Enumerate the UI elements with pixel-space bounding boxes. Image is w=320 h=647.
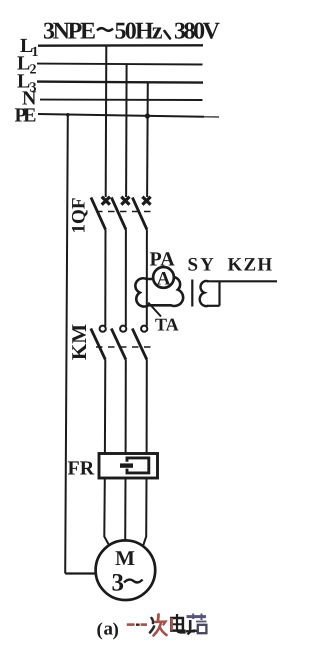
contactor KM linkage bbox=[96, 346, 151, 348]
SY winding bbox=[200, 281, 208, 306]
svg-text:): ) bbox=[113, 620, 119, 641]
label L1 bbox=[20, 35, 39, 60]
supply label 3NPE~50Hz 380V bbox=[43, 19, 221, 45]
svg-text:SY: SY bbox=[188, 255, 216, 276]
wire FR to motor 1 bbox=[104, 478, 109, 546]
svg-text:380V: 380V bbox=[174, 19, 221, 45]
label L3 bbox=[17, 71, 37, 96]
svg-text:KM: KM bbox=[67, 324, 91, 360]
contactor KM pole 1 bbox=[91, 326, 106, 453]
svg-text:TA: TA bbox=[155, 315, 179, 335]
bus PE bbox=[38, 114, 204, 117]
label L2 bbox=[17, 53, 37, 78]
SY core bar bbox=[191, 280, 193, 307]
node L3 drop crossing PE bbox=[145, 113, 150, 118]
wire FR to motor 3 bbox=[143, 478, 146, 546]
wire L3 drop bbox=[146, 82, 149, 197]
svg-text:1: 1 bbox=[32, 45, 39, 60]
SY loop bottom bbox=[207, 305, 220, 307]
wire FR to motor 2 bbox=[124, 478, 126, 542]
svg-text:50Hz: 50Hz bbox=[115, 19, 163, 45]
caption (a) bbox=[97, 619, 119, 641]
caption glyph 电 bbox=[170, 614, 184, 633]
caption glyph 路 bbox=[186, 614, 207, 635]
wire PE to motor bbox=[65, 572, 96, 574]
node PE junction bbox=[66, 113, 70, 117]
FR heater element bbox=[120, 458, 149, 473]
svg-text:A: A bbox=[157, 268, 171, 289]
breaker 1QF pole 1 bbox=[91, 197, 110, 326]
SY loop right side bbox=[218, 281, 220, 306]
svg-text:3: 3 bbox=[112, 570, 125, 597]
thermal relay FR box bbox=[99, 454, 158, 479]
current transformer TA ring bbox=[135, 277, 183, 307]
svg-text:2: 2 bbox=[30, 63, 37, 78]
wire PE drop bbox=[65, 115, 68, 574]
TA pointer bbox=[148, 303, 161, 317]
svg-text:1QF: 1QF bbox=[69, 198, 90, 234]
svg-text:FR: FR bbox=[68, 458, 95, 480]
breaker 1QF linkage bbox=[96, 211, 153, 213]
wire L2 drop bbox=[125, 64, 128, 197]
caption dash 1 of 一 bbox=[127, 623, 135, 626]
wire L1 drop bbox=[105, 46, 108, 197]
ammeter PA circle bbox=[153, 267, 174, 288]
contactor KM pole 2 bbox=[111, 326, 126, 453]
svg-text:PE: PE bbox=[15, 105, 37, 127]
svg-text:KZH: KZH bbox=[228, 255, 274, 276]
caption dash 2 of 一 bbox=[136, 624, 140, 626]
bus N bbox=[40, 99, 203, 101]
svg-text:3NPE: 3NPE bbox=[43, 19, 96, 45]
bus L3 bbox=[37, 82, 203, 83]
caption dash 3 of 一 bbox=[141, 623, 147, 626]
svg-text:(: ( bbox=[97, 620, 103, 641]
caption glyph 次 bbox=[150, 615, 167, 636]
motor M circle bbox=[96, 540, 156, 600]
breaker 1QF pole 2 bbox=[111, 197, 129, 326]
wire to KZH bbox=[207, 280, 277, 282]
breaker 1QF pole 3 bbox=[132, 197, 150, 326]
svg-text:M: M bbox=[115, 546, 135, 570]
bus L2 bbox=[37, 63, 203, 66]
bus L1 bbox=[38, 44, 203, 47]
contactor KM pole 3 bbox=[132, 326, 147, 453]
